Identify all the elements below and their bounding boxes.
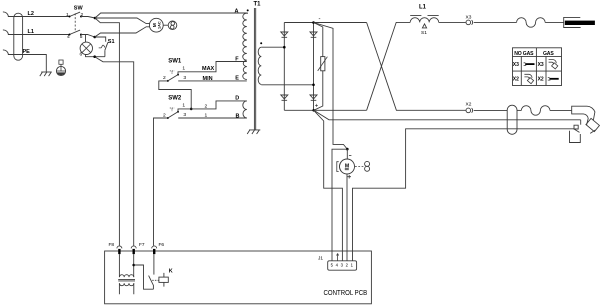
svg-text:T1: T1 — [254, 2, 262, 8]
wire trigger B to J1 pin1 — [353, 129, 575, 261]
mains plug P1 — [3, 12, 23, 60]
svg-text:2: 2 — [205, 104, 208, 110]
connector X2 — [466, 102, 473, 113]
wire node B2 to F7 — [95, 57, 134, 246]
varistor RV1 wire — [314, 23, 323, 111]
torch cable grommet — [507, 105, 517, 134]
node A1 — [94, 17, 97, 20]
switch SW link dashed — [74, 13, 76, 30]
wire secondary top to bridge — [261, 46, 284, 48]
fuse terminal F6 — [152, 242, 165, 254]
wire SW2 to tap B — [178, 117, 247, 119]
chassis ground — [40, 72, 52, 76]
icon torch row2 — [549, 60, 558, 69]
svg-text:F8: F8 — [109, 242, 115, 248]
diode D1 — [281, 32, 288, 37]
svg-text:1: 1 — [182, 66, 185, 72]
svg-text:SW2: SW2 — [168, 96, 182, 102]
svg-text:E: E — [235, 76, 239, 82]
wire pin2 to node A1 — [81, 17, 95, 19]
svg-text:X3: X3 — [513, 62, 519, 68]
svg-text:K: K — [169, 269, 173, 275]
diode D3 — [281, 95, 288, 100]
svg-text:D: D — [235, 96, 239, 102]
wire X2 to torch — [474, 109, 508, 111]
lamp H1 — [80, 42, 93, 57]
wire cable to torch — [550, 109, 572, 111]
wire node A1 to transformer tap A — [95, 13, 248, 18]
gas table — [513, 48, 562, 86]
torch weld wire through grommet — [517, 109, 521, 111]
wire L1 to X3 — [439, 21, 466, 23]
svg-text:6: 6 — [80, 51, 83, 57]
wire cable to holder — [545, 21, 564, 23]
T1 primary winding lower — [243, 101, 247, 118]
svg-text:J1: J1 — [318, 256, 323, 262]
svg-text:-: - — [319, 17, 321, 23]
wire node A1 to fan motor upper — [95, 18, 150, 24]
connector X3 — [466, 15, 473, 25]
icon torch row3 — [524, 74, 533, 83]
wire motor plus to J1 pin2 — [346, 174, 348, 261]
pcb wire F7 junction — [133, 254, 135, 277]
svg-text:S1: S1 — [108, 39, 115, 45]
bridge rectifier rails — [284, 23, 366, 111]
fan motor M1 — [149, 18, 163, 32]
wire SW1 MIN to tap E — [178, 80, 247, 82]
pcb transformer T2 — [118, 275, 135, 295]
wire trigger A from plus — [314, 110, 581, 120]
wire L2 — [8, 16, 70, 18]
svg-text:3: 3 — [183, 75, 186, 81]
pcb wire node to relay contact — [134, 265, 154, 289]
wire lamp bottom — [86, 54, 105, 56]
node SW2-1 — [190, 108, 193, 111]
wire X3 to holder cable — [474, 21, 517, 23]
wire feed motor M2 — [337, 156, 355, 179]
thermal sensor S1 triangle — [422, 24, 426, 28]
wire SW2 common to F6 — [154, 118, 168, 246]
svg-text:B: B — [236, 113, 240, 119]
electrode holder — [564, 17, 595, 27]
fuse terminal F8 — [109, 242, 122, 254]
svg-text:MAX: MAX — [202, 66, 215, 72]
torch body — [572, 106, 600, 133]
diode D4 — [310, 95, 317, 100]
svg-text:4: 4 — [67, 34, 70, 40]
node B2 — [93, 55, 96, 58]
T1 secondary winding — [258, 47, 261, 84]
relay contact — [149, 276, 159, 290]
node AC left — [283, 46, 286, 49]
control PCB board — [105, 251, 372, 304]
wire node to feed motor — [346, 149, 348, 159]
svg-text:L2: L2 — [28, 11, 34, 17]
svg-text:X2: X2 — [466, 102, 472, 108]
fan link wire — [163, 24, 168, 26]
icon holder row2 — [524, 63, 535, 66]
node B1 — [93, 36, 96, 39]
earth terminal symbol — [56, 60, 65, 76]
node plus — [312, 109, 315, 112]
wire pin5 to node B1 — [81, 35, 95, 38]
wire node B1 to fan motor lower — [95, 27, 150, 37]
diode D2 — [310, 32, 317, 37]
svg-text:1AC: 1AC — [158, 21, 162, 29]
fuse terminal F7 — [131, 242, 145, 254]
wire L1 — [8, 34, 70, 36]
svg-text:2: 2 — [163, 75, 166, 81]
svg-text:3: 3 — [183, 112, 186, 118]
switch SW pole 1 — [66, 12, 84, 18]
T1 primary winding upper — [243, 13, 247, 79]
switch SW1 — [163, 66, 186, 82]
holder cable waves — [517, 18, 546, 28]
wire node B1 to S1 — [95, 37, 106, 42]
svg-text:1: 1 — [205, 113, 208, 119]
fan blades — [168, 21, 177, 30]
connector J1 — [318, 256, 357, 271]
T1 core — [254, 8, 255, 130]
svg-text:PE: PE — [23, 49, 31, 55]
wire plus to J1 pin3 — [314, 110, 343, 260]
varistor RV1 body — [318, 57, 328, 71]
node minus — [312, 21, 315, 24]
svg-text:MIN: MIN — [203, 76, 213, 82]
thermal switch S1 — [99, 39, 115, 57]
svg-text:F7: F7 — [139, 242, 145, 248]
svg-text:1: 1 — [182, 103, 185, 109]
wire SW1 MAX to tap F — [178, 62, 247, 75]
wire node to J1 pin5 — [332, 149, 347, 261]
svg-text:SW: SW — [74, 5, 84, 11]
feed rollers — [355, 161, 370, 171]
svg-text:X2: X2 — [538, 77, 544, 83]
svg-text:GAS: GAS — [543, 51, 554, 57]
torch cable waves — [521, 106, 550, 116]
T1 secondary polarity dot — [260, 42, 262, 44]
wire minus to motor node — [314, 23, 348, 150]
lamp feed wire — [85, 35, 87, 42]
wire PE — [8, 55, 46, 72]
svg-text:X3: X3 — [466, 15, 472, 21]
svg-text:X3: X3 — [538, 62, 544, 68]
pcb wire F6 to relay contact — [153, 254, 155, 275]
svg-text:2: 2 — [163, 112, 166, 118]
node AC right — [312, 84, 315, 87]
svg-text:X2: X2 — [513, 77, 519, 83]
switch SW pole 2 — [67, 30, 83, 40]
svg-text:A: A — [235, 9, 239, 15]
wire node A1 to F8 — [95, 18, 119, 246]
svg-text:NO GAS: NO GAS — [514, 51, 534, 57]
pcb wire F8 to T2 — [118, 254, 120, 277]
svg-text:CONTROL PCB: CONTROL PCB — [324, 289, 368, 297]
inductor L1 — [410, 15, 439, 22]
svg-text:L1: L1 — [28, 29, 34, 35]
node T2 — [132, 264, 135, 267]
svg-text:L1: L1 — [419, 5, 427, 11]
svg-text:SW1: SW1 — [168, 58, 182, 64]
svg-text:S1: S1 — [421, 30, 427, 36]
torch trigger — [570, 120, 581, 143]
svg-text:1: 1 — [66, 12, 69, 18]
wire SW2 to tap D — [178, 101, 247, 112]
icon holder row3 — [548, 78, 559, 81]
T1 core ground — [247, 130, 260, 134]
wire secondary bottom to bridge — [261, 84, 313, 86]
switch SW2 — [163, 103, 186, 119]
relay coil K — [159, 269, 173, 287]
svg-text:F6: F6 — [159, 242, 165, 248]
X crossover plus leg to L1 — [367, 22, 411, 110]
X crossover minus leg to X2 — [367, 23, 466, 111]
wire SW1 common down to SW2 — [159, 81, 191, 109]
T1 polarity dot A — [247, 9, 249, 11]
J1 pin4 arrow stub — [337, 253, 339, 260]
node motor minus — [346, 148, 349, 151]
